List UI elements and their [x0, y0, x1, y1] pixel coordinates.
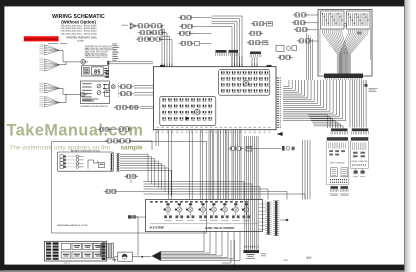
connector C15 [251, 22, 273, 26]
ground GND1 [113, 257, 117, 262]
relay K4 [199, 203, 207, 221]
controller right side pins [277, 77, 281, 127]
relay K3 [186, 203, 194, 221]
svg-text:TAILGATE / WORKLIGHTS OPTION: TAILGATE / WORKLIGHTS OPTION [71, 149, 101, 152]
svg-text:IN SYSTEME: IN SYSTEME [150, 227, 165, 230]
power feed bundle to fuse center [161, 232, 240, 261]
junction box output strip [324, 74, 363, 81]
worklamp rows L1-L4 [60, 155, 84, 169]
CN-B index circle [195, 109, 200, 114]
junction box mounting mark [344, 23, 362, 34]
ground lug note right of strip [365, 80, 378, 92]
feed wire from harness [130, 217, 139, 255]
svg-text:Printable Version Click Here: Printable Version Click Here [25, 38, 59, 41]
beacon horn symbol [88, 160, 105, 169]
wire fan J1/J2 to bulkhead circle [60, 50, 81, 65]
svg-text:sample: sample [121, 145, 143, 152]
right console lower modules [353, 169, 365, 177]
fuse center exit combs [258, 201, 288, 236]
connector C5 [136, 37, 152, 41]
battery symbol notes [246, 253, 267, 259]
bulkhead connector circle P1 [81, 60, 88, 65]
svg-text:H-030F: H-030F [77, 41, 84, 43]
connector row under controller [105, 139, 152, 150]
alternator M1 [98, 243, 114, 259]
connector C26 left lower [104, 189, 144, 193]
connector C24 pair below controller [97, 127, 132, 132]
connector C7 [178, 15, 194, 19]
ground wires lower left [222, 240, 235, 265]
bulkhead connector circle P2 [80, 92, 87, 97]
legend key box [45, 241, 107, 261]
controller lower-right arrow [277, 132, 283, 136]
controller bottom pin labels [157, 127, 271, 133]
controller U1 outline [153, 65, 276, 130]
sensor B1 with lamp [105, 84, 116, 89]
bus wires to controller drops [212, 16, 243, 67]
wires C19-C22 to junction box [307, 15, 319, 41]
console feed risers [303, 140, 311, 199]
right console header comb [352, 128, 369, 134]
wire C12/C13 to controller [141, 106, 154, 108]
tailgate worklights option box [57, 149, 113, 171]
connector C6 [147, 37, 163, 41]
svg-text:85: 85 [94, 70, 101, 76]
relay K8 [242, 203, 250, 221]
connector C13 [127, 105, 140, 109]
horn fan J5 [122, 23, 137, 29]
svg-text:(PRINTED FEBRUARY 2005): (PRINTED FEBRUARY 2005) [66, 37, 97, 40]
connector C16 [248, 31, 264, 35]
wires right cluster to bus [191, 18, 212, 44]
wire fan J3/J4 to bulkhead circle [60, 88, 81, 102]
svg-text:MBE: MBE [284, 260, 289, 262]
revision note list [85, 45, 115, 59]
connector C4 [150, 31, 166, 35]
svg-text:SUSPENSION SEAT: OPTION: SUSPENSION SEAT: OPTION [85, 56, 109, 59]
connector C2 [149, 24, 165, 28]
connector C18 [277, 55, 293, 59]
relay K1 [164, 203, 172, 221]
mid horizontal harness bundle [144, 182, 306, 200]
wire bundle to left console drops [308, 115, 343, 129]
relay K5 [209, 203, 217, 221]
left console header comb [331, 128, 348, 134]
pressure switch S2 [282, 146, 295, 151]
svg-text:MAINFRAME HARNESS 4T9000: MAINFRAME HARNESS 4T9000 [57, 224, 89, 227]
CN-A index circle [243, 80, 248, 85]
relay base rail [150, 223, 258, 225]
right console body [350, 141, 368, 169]
connector C25 mid right [228, 146, 244, 150]
fuse row top [150, 201, 248, 203]
svg-text:legend: legend [64, 262, 69, 264]
wire drops controller to fuse center [156, 130, 241, 200]
controller top pin stubs [162, 64, 257, 67]
sensor B2 [105, 91, 110, 96]
harness label CAB FRAME [48, 42, 67, 45]
wire C10 to controller [134, 86, 153, 88]
printed february note [66, 37, 97, 43]
red highlight note: Printable Version Click Here [24, 36, 59, 41]
connector C3 [138, 31, 154, 35]
watermark sample note [10, 145, 143, 152]
hydraulic filter switch S1 [80, 81, 109, 104]
relay K2 [175, 203, 183, 221]
connector fan J2 [39, 59, 59, 72]
left console connector bar [327, 137, 348, 142]
tailgate harness wires right [120, 154, 172, 196]
connector fan J4 [39, 96, 59, 107]
fuse relay center box [146, 200, 263, 232]
power distribution fan [152, 251, 161, 260]
connector C21 [294, 28, 310, 32]
wire bundle controller to cab junction (staircase) [283, 80, 346, 121]
tailgate external comb [116, 153, 120, 171]
connector C19 [293, 13, 309, 17]
svg-text:LEFT CONSOLE: LEFT CONSOLE [330, 163, 345, 165]
connector C1 [136, 24, 152, 28]
connector C27 small [128, 215, 146, 218]
svg-text:(Without Option): (Without Option) [61, 19, 96, 24]
connector C20 [292, 21, 308, 25]
connector C8 [179, 24, 195, 28]
junction box internal wire fan [320, 29, 370, 74]
svg-text:HYDRAULIC FILTER SWITCH: HYDRAULIC FILTER SWITCH [80, 105, 108, 108]
CN-B locator triangle [186, 117, 190, 121]
connector C22 [297, 39, 313, 43]
connector fan J1 [39, 45, 59, 55]
wire bundle drop to battery bar [244, 136, 258, 250]
header X1 pin block [321, 11, 344, 29]
controller connector header CN-B pin grid [160, 96, 216, 125]
svg-text:RIGHT CONSOLE: RIGHT CONSOLE [352, 161, 368, 163]
tailgate lower connector C23 [124, 174, 138, 183]
serial number lines [61, 26, 97, 36]
junction dot [141, 256, 143, 258]
right console connector bar [351, 137, 368, 142]
dashed option wire [117, 83, 119, 98]
relay K7 [231, 203, 239, 221]
controller connector header CN-A pin grid [219, 70, 270, 96]
left console lower connectors [330, 186, 350, 196]
connector C17 with diode box [247, 41, 268, 45]
svg-text:C86 (228-12001-5001 - E2001-54: C86 (228-12001-5001 - E2001-5448) [61, 33, 97, 35]
connector C11 [118, 92, 134, 96]
legend cells [61, 243, 103, 264]
pin label column [112, 44, 119, 61]
tailgate box edge comb [110, 153, 113, 170]
top comb connectors on controller [216, 50, 227, 56]
connector C14 with resistor [179, 41, 200, 45]
connector C9 [177, 31, 193, 35]
mainframe harness boundary box [52, 142, 207, 233]
cab junction box X0 outline [318, 10, 372, 77]
breaker stack [104, 70, 109, 78]
battery bus bar [244, 250, 260, 253]
connector fan J3 [39, 83, 59, 93]
wire bundle cab junction right risers [350, 80, 366, 127]
wire C11 to controller [134, 93, 153, 95]
hour meter U2 [82, 66, 109, 76]
relay K6 [220, 203, 228, 221]
diode module D1 [246, 146, 282, 151]
header X2 pin block [347, 11, 370, 29]
connector C12 [114, 105, 130, 109]
gauge G1 [115, 252, 152, 261]
connector C10 [118, 85, 134, 89]
left console body [326, 141, 349, 185]
wires top combs to controller [232, 56, 257, 67]
code label MBE-5136 [284, 257, 312, 262]
svg-text:FUSE / RELAY CENTER: FUSE / RELAY CENTER [205, 226, 234, 230]
wire hydraulic box to controller [107, 61, 153, 65]
wire cluster1 drops to controller [161, 26, 173, 67]
relay module K9 [276, 45, 297, 51]
riser wires x306-312 [307, 33, 313, 80]
